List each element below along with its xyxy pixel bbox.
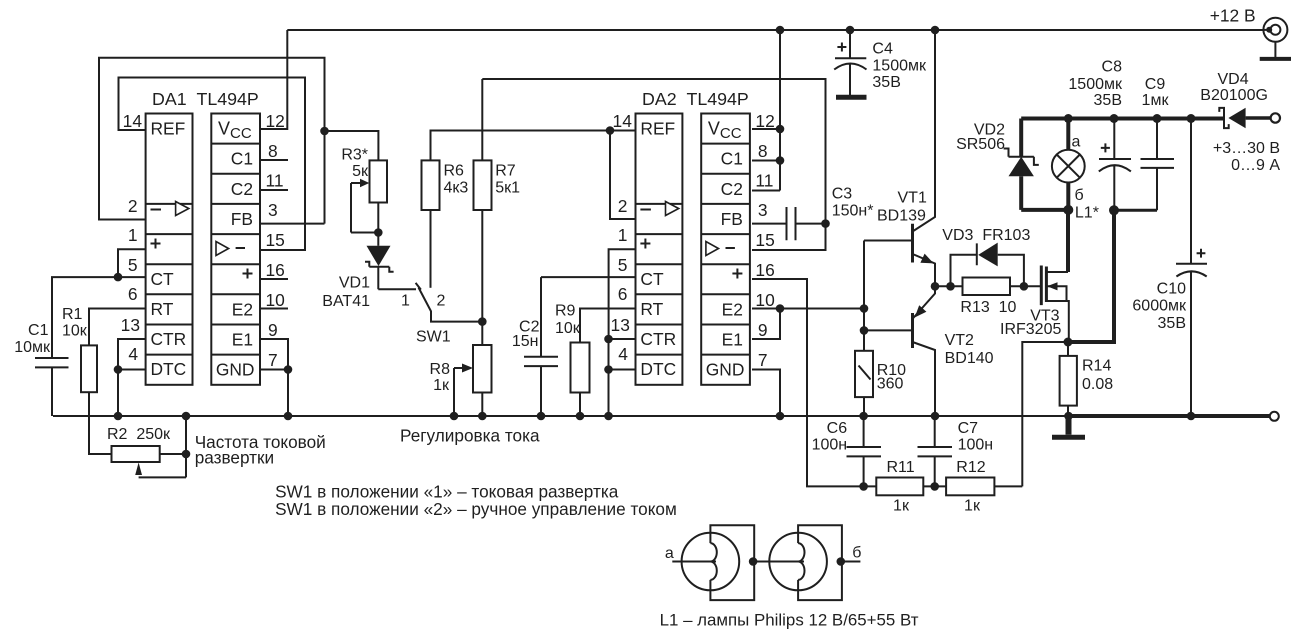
svg-text:R1: R1	[62, 306, 83, 323]
svg-text:DA2 TL494P: DA2 TL494P	[642, 89, 749, 109]
svg-text:L1 – лампы Philips 12 В/65+55: L1 – лампы Philips 12 В/65+55 Вт	[660, 611, 919, 630]
svg-text:5к: 5к	[352, 163, 369, 180]
svg-text:0.08: 0.08	[1082, 376, 1113, 393]
svg-text:C1: C1	[28, 322, 49, 339]
svg-text:R14: R14	[1082, 358, 1111, 375]
svg-text:R12: R12	[956, 459, 985, 476]
svg-text:1мк: 1мк	[1142, 92, 1170, 109]
svg-text:100н: 100н	[958, 436, 994, 453]
svg-text:R2 250к: R2 250к	[107, 426, 171, 443]
svg-text:1500мк: 1500мк	[1068, 76, 1123, 93]
svg-text:35В: 35В	[872, 74, 900, 91]
svg-text:VT1: VT1	[898, 190, 927, 207]
svg-text:6000мк: 6000мк	[1132, 298, 1187, 315]
svg-text:10к: 10к	[555, 320, 581, 337]
svg-text:150н*: 150н*	[832, 203, 874, 220]
svg-text:VT2: VT2	[945, 332, 974, 349]
svg-text:100н: 100н	[812, 436, 848, 453]
svg-text:15н: 15н	[512, 333, 539, 350]
svg-text:+3…30 В: +3…30 В	[1213, 140, 1280, 157]
svg-text:R3*: R3*	[341, 147, 368, 164]
svg-text:2: 2	[437, 293, 446, 310]
svg-text:R13 10: R13 10	[960, 299, 1016, 316]
svg-text:VD3 FR103: VD3 FR103	[942, 227, 1030, 244]
svg-text:а: а	[665, 545, 674, 562]
svg-text:5к1: 5к1	[495, 180, 520, 197]
svg-text:10мк: 10мк	[14, 339, 51, 356]
svg-text:L1*: L1*	[1075, 205, 1099, 222]
svg-text:0…9 А: 0…9 А	[1231, 157, 1280, 174]
svg-text:C7: C7	[958, 420, 979, 437]
svg-text:б: б	[1075, 187, 1084, 204]
svg-text:BAT41: BAT41	[322, 293, 370, 310]
svg-text:R9: R9	[555, 303, 576, 320]
svg-text:VD4: VD4	[1218, 71, 1249, 88]
svg-text:а: а	[1072, 134, 1081, 151]
svg-text:R8: R8	[430, 361, 451, 378]
svg-text:R11: R11	[887, 459, 915, 476]
svg-text:развертки: развертки	[195, 448, 274, 468]
svg-text:10к: 10к	[62, 323, 88, 340]
svg-text:4к3: 4к3	[444, 180, 469, 197]
svg-text:C6: C6	[827, 420, 848, 437]
svg-text:35В: 35В	[1094, 92, 1122, 109]
svg-text:C10: C10	[1157, 281, 1186, 298]
svg-text:SR506: SR506	[956, 136, 1005, 153]
svg-text:BD140: BD140	[945, 350, 994, 367]
svg-text:R7: R7	[495, 163, 516, 180]
svg-text:DA1 TL494P: DA1 TL494P	[152, 89, 259, 109]
svg-text:+12 В: +12 В	[1210, 6, 1256, 26]
svg-text:б: б	[852, 545, 861, 562]
svg-text:C4: C4	[872, 41, 893, 58]
svg-text:1к: 1к	[433, 377, 450, 394]
svg-text:SW1 в положении «2» – ручное у: SW1 в положении «2» – ручное управление …	[275, 499, 677, 519]
svg-text:1500мк: 1500мк	[872, 58, 927, 75]
svg-text:1: 1	[401, 293, 410, 310]
svg-text:SW1: SW1	[416, 329, 451, 346]
svg-text:C9: C9	[1145, 76, 1166, 93]
svg-text:BD139: BD139	[877, 208, 926, 225]
svg-text:35В: 35В	[1158, 315, 1186, 332]
svg-text:360: 360	[877, 376, 904, 393]
svg-text:1к: 1к	[893, 497, 910, 514]
svg-text:R6: R6	[444, 163, 465, 180]
svg-text:1к: 1к	[964, 497, 981, 514]
svg-text:C8: C8	[1102, 58, 1123, 75]
svg-text:IRF3205: IRF3205	[1000, 321, 1061, 338]
svg-text:B20100G: B20100G	[1200, 87, 1268, 104]
svg-text:Регулировка тока: Регулировка тока	[400, 426, 540, 446]
svg-text:VD1: VD1	[339, 275, 370, 292]
svg-text:C3: C3	[832, 186, 853, 203]
